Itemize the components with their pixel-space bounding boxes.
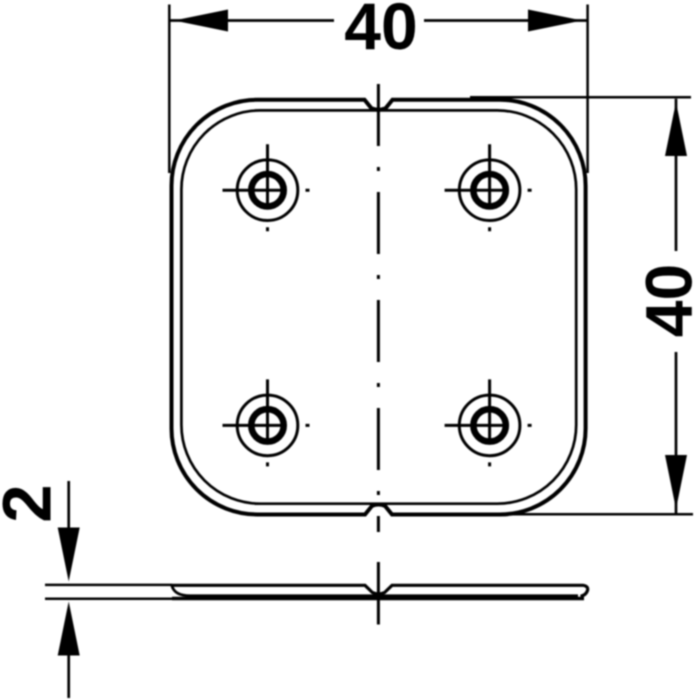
hole top-left inner ring <box>251 174 283 206</box>
hole bottom-right outer circle <box>459 395 520 456</box>
hole top-left horizontal centerline <box>223 189 313 192</box>
side view inner line <box>172 586 578 596</box>
side view bottom edge <box>172 597 584 600</box>
right dimension up arrowhead <box>665 102 687 156</box>
right dimension line lower segment <box>675 352 678 514</box>
top dimension left arrowhead <box>174 10 228 32</box>
extension line top of right dimension <box>470 96 691 99</box>
hole top-left vertical centerline <box>266 144 269 234</box>
hole bottom-left vertical centerline <box>266 379 269 469</box>
top dimension line right segment <box>424 19 588 22</box>
hole bottom-left inner ring <box>251 409 283 441</box>
thickness dimension up arrowhead <box>58 602 80 656</box>
hole top-right horizontal centerline <box>445 189 535 192</box>
extension line top of thickness dimension <box>45 584 172 587</box>
hole top-right outer circle <box>459 160 520 221</box>
extension line right of top dimension <box>586 5 589 174</box>
hole bottom-left outer circle <box>237 395 298 456</box>
right dimension line upper segment <box>675 99 678 251</box>
plate inner outline <box>181 110 576 503</box>
hole top-right inner ring <box>473 174 505 206</box>
hole top-right vertical centerline <box>488 144 491 234</box>
hole bottom-right vertical centerline <box>488 379 491 469</box>
hole top-left outer circle <box>237 160 298 221</box>
thickness dimension line upper segment <box>67 481 70 531</box>
extension line bottom of right dimension <box>470 513 693 516</box>
extension line left of top dimension <box>168 5 171 174</box>
thickness dimension line lower segment <box>67 652 70 698</box>
hole bottom-left horizontal centerline <box>223 424 313 427</box>
plate outer outline with notches <box>172 100 586 515</box>
hole bottom-right inner ring <box>473 409 505 441</box>
hole bottom-right horizontal centerline <box>445 424 535 427</box>
thickness dimension down arrowhead <box>58 528 80 582</box>
side view top edge with notch <box>172 585 588 596</box>
svg-text:2: 2 <box>0 484 66 522</box>
svg-text:40: 40 <box>632 264 697 337</box>
top dimension line left segment <box>169 19 334 22</box>
top dimension right arrowhead <box>528 10 582 32</box>
main vertical centerline of plate <box>377 84 380 532</box>
extension line bottom of thickness dimension <box>45 598 172 601</box>
svg-text:40: 40 <box>344 0 417 63</box>
side view centerline <box>377 562 380 625</box>
right dimension down arrowhead <box>665 455 687 509</box>
